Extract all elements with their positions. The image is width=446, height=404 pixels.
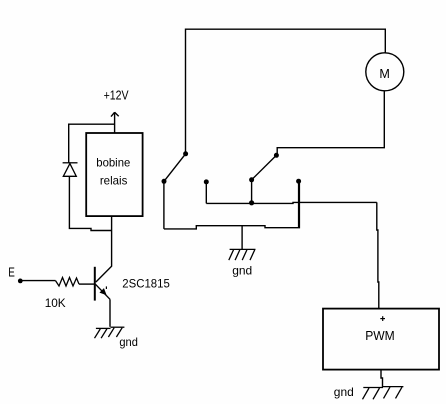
wire resistor to base (79, 283, 95, 285)
wire ground stem middle (241, 226, 243, 250)
svg-text:+12V: +12V (104, 89, 130, 103)
wire diode branch top (69, 124, 115, 163)
wire diode bottom to collector (69, 176, 111, 230)
svg-text:gnd: gnd (334, 385, 354, 399)
ground symbol middle (229, 249, 256, 260)
wire input E to resistor (21, 280, 56, 282)
wire PWM rail (206, 202, 376, 203)
wire S1 right throw stub to PWM rail (205, 182, 207, 203)
diode D1 flyback (63, 163, 78, 177)
svg-text:2SC1815: 2SC1815 (122, 276, 170, 290)
wire top rail from relay contact to motor (186, 29, 386, 153)
ground symbol transistor (95, 327, 125, 338)
power arrow +12V (111, 112, 119, 133)
switch S1 arm (164, 154, 186, 182)
svg-text:gnd: gnd (232, 264, 252, 278)
ground symbol PWM (363, 387, 404, 400)
switch S2 arm (252, 155, 277, 180)
wire ground rail bottom (164, 182, 300, 229)
resistor R1 10K (56, 278, 80, 287)
svg-text:E: E (8, 266, 15, 280)
node S2 throw right (296, 179, 301, 184)
svg-text:M: M (379, 67, 390, 81)
node S2 throw left (249, 177, 254, 182)
wire PWM rail drop to PWM box (377, 202, 379, 308)
wire emitter to ground (109, 299, 111, 327)
PWM box (323, 309, 439, 370)
node E input terminal (18, 279, 23, 284)
motor M1 (366, 53, 404, 91)
wire S2 right throw down to ground rail (298, 181, 300, 228)
wire PWM box to ground (381, 370, 383, 388)
node S2 common (274, 153, 279, 158)
node S1 common (183, 151, 188, 156)
svg-text:PWM: PWM (365, 329, 395, 343)
node S1 throw right (204, 179, 209, 184)
node S1 throw left (162, 179, 167, 184)
svg-text:bobine: bobine (96, 156, 130, 170)
svg-text:relais: relais (100, 173, 128, 187)
relay coil box (86, 133, 142, 216)
wire S1 left throw down (163, 182, 165, 229)
wire S2 left throw to PWM rail (251, 180, 253, 203)
node junction on PWM rail (249, 200, 254, 205)
wire motor bottom to switch S2 common (277, 91, 384, 153)
svg-text:gnd: gnd (119, 335, 137, 349)
transistor Q1 2SC1815 (95, 267, 110, 301)
svg-text:10K: 10K (45, 296, 66, 310)
wire relay coil to collector (96, 216, 112, 282)
